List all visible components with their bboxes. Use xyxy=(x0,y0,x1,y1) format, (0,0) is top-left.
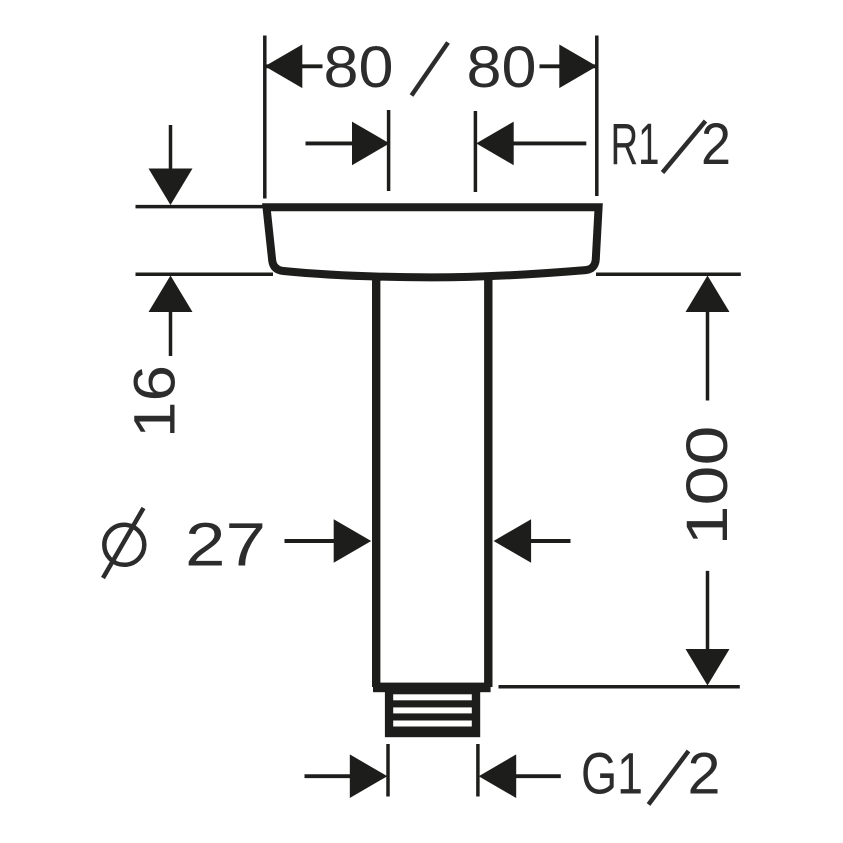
dim 80/80 extension line left xyxy=(263,36,267,199)
svg-text:R1: R1 xyxy=(611,112,660,177)
svg-text:80: 80 xyxy=(324,35,394,100)
dim 27 arrowhead right xyxy=(334,519,372,563)
pipe bottom cap bar xyxy=(373,683,491,693)
dim 100 extension line bottom xyxy=(499,685,740,689)
dim 16 arrowhead up xyxy=(149,276,193,313)
dim R1/2 arrowhead left xyxy=(352,122,390,166)
dim G1/2 arrow tail right xyxy=(515,774,561,778)
dim G1/2 arrowhead left xyxy=(479,754,517,798)
dim 27 arrow tail right xyxy=(530,539,571,543)
dim G1/2 extension line right xyxy=(476,744,480,797)
thread groove 3 xyxy=(393,721,472,727)
thread groove 1 xyxy=(393,694,472,700)
slash of G1/2 xyxy=(649,751,689,805)
dim G1/2 arrow tail left xyxy=(305,774,353,778)
slash of R1/2 xyxy=(663,121,706,173)
dim G1/2 arrowhead right xyxy=(350,754,388,798)
slash of 80 / 80 xyxy=(412,43,449,96)
dim 16 extension line top xyxy=(136,205,265,209)
pipe right wall xyxy=(484,240,492,687)
svg-text:100: 100 xyxy=(675,426,740,546)
dim G1/2 extension line left xyxy=(386,744,390,797)
dim 100 stem lower xyxy=(706,571,710,650)
svg-text:G1: G1 xyxy=(581,742,643,807)
dim 80/80 extension line right xyxy=(595,36,599,197)
dim 27 arrow tail left xyxy=(285,539,337,543)
svg-text:2: 2 xyxy=(688,742,721,807)
threaded nipple G1/2 body xyxy=(385,691,480,737)
flange (escutcheon) outline xyxy=(267,207,599,277)
dim 16 arrowhead down xyxy=(149,169,193,206)
dim R1/2 arrow tail left xyxy=(306,141,356,145)
dim 80/80 arrowhead right xyxy=(559,45,597,89)
thread groove 2 xyxy=(393,707,472,713)
svg-text:80: 80 xyxy=(467,35,537,100)
dim 16 extension line bottom xyxy=(136,273,274,277)
dim 27 arrowhead left xyxy=(494,519,531,563)
svg-text:27: 27 xyxy=(185,511,266,579)
dim 16 stem above xyxy=(169,125,173,172)
dim 16 stem below xyxy=(169,309,173,356)
dim 100 arrowhead down xyxy=(686,649,730,686)
dim 100 stem upper xyxy=(706,310,710,401)
dim 80/80 arrowhead left xyxy=(265,45,303,89)
dim 80/80 dimension line right segment xyxy=(540,64,597,68)
dim R1/2 extension line right xyxy=(474,111,478,192)
diameter symbol slash xyxy=(103,508,144,578)
dim 100 arrowhead up xyxy=(686,276,730,313)
pipe left wall xyxy=(372,240,380,687)
dim R1/2 arrowhead right xyxy=(476,122,514,166)
dim 80/80 dimension line left segment xyxy=(265,64,323,68)
dim R1/2 arrow tail right xyxy=(512,141,586,145)
svg-text:16: 16 xyxy=(123,365,188,438)
dim R1/2 extension line left xyxy=(387,110,391,191)
diameter symbol circle xyxy=(104,525,144,565)
dim 100 extension line top xyxy=(596,272,741,276)
